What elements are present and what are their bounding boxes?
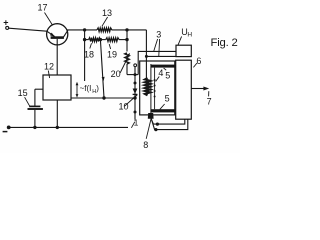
label 5 lower bbox=[160, 94, 170, 110]
label 10 with arrow bbox=[119, 95, 138, 112]
label 13 bbox=[102, 8, 112, 26]
wire from + terminal to transistor bbox=[9, 28, 47, 31]
current annotation arrow bbox=[76, 82, 79, 98]
svg-text:15: 15 bbox=[18, 88, 28, 98]
step wire inner from box6 bottom bbox=[150, 116, 185, 124]
bus node box12 bbox=[56, 126, 59, 129]
svg-text:8: 8 bbox=[143, 140, 148, 150]
svg-text:18: 18 bbox=[84, 50, 94, 60]
svg-text:Fig. 2: Fig. 2 bbox=[211, 37, 238, 49]
bus node capacitor bbox=[33, 126, 36, 129]
svg-text:13: 13 bbox=[102, 8, 112, 18]
label 18 bbox=[84, 43, 94, 59]
wire R19 to zener column bbox=[119, 39, 127, 41]
label 8 with pointer bbox=[143, 119, 151, 150]
core box 1 bbox=[140, 61, 175, 115]
supply box U_H bbox=[176, 45, 191, 56]
output wire 7 with arrow bbox=[192, 87, 210, 91]
node top-left bbox=[83, 28, 86, 31]
box 12 (control unit) bbox=[43, 75, 71, 100]
node at zener column top bbox=[125, 28, 128, 31]
svg-text:H: H bbox=[187, 31, 192, 38]
wire R13 to corner bbox=[112, 29, 147, 31]
node on coil lead bbox=[145, 55, 148, 58]
wire box12 left input bbox=[35, 88, 43, 90]
transistor Q17 bbox=[47, 24, 68, 75]
wire box12 right (I_H line) bbox=[71, 97, 135, 99]
node step outer bbox=[154, 128, 157, 131]
wire zener to diode column bbox=[127, 74, 138, 76]
node diode column lower bbox=[134, 111, 137, 114]
label 6 bbox=[193, 56, 201, 67]
svg-text:10: 10 bbox=[119, 102, 129, 112]
svg-text:6: 6 bbox=[196, 56, 201, 66]
svg-text:): ) bbox=[96, 84, 99, 93]
annotation f(I_H) bbox=[80, 84, 100, 95]
svg-text:5: 5 bbox=[165, 94, 170, 104]
label 5 upper bbox=[164, 68, 171, 81]
resistor R19 bbox=[106, 38, 119, 42]
wire box12 bottom to bus bbox=[56, 100, 58, 127]
node row2 right bbox=[125, 38, 128, 41]
node between R18 R19 bbox=[99, 38, 102, 41]
node on I_H wire bbox=[102, 96, 105, 99]
resistor R13 bbox=[97, 28, 112, 32]
supply wire 3b bbox=[146, 55, 176, 57]
terminal + (positive input) bbox=[3, 18, 9, 30]
svg-text:5: 5 bbox=[165, 71, 170, 81]
svg-text:7: 7 bbox=[207, 96, 212, 106]
label 3 with pointers bbox=[154, 30, 161, 57]
svg-text:17: 17 bbox=[38, 3, 48, 13]
terminal circle mid bbox=[134, 64, 137, 67]
svg-text:12: 12 bbox=[44, 62, 54, 72]
inner vertical line bbox=[150, 64, 152, 115]
junction blob bbox=[148, 113, 154, 119]
node row2 left bbox=[83, 38, 86, 41]
svg-text:20: 20 bbox=[111, 69, 121, 79]
label 12 bbox=[44, 62, 54, 79]
label 4 bbox=[156, 68, 164, 82]
svg-text:19: 19 bbox=[107, 50, 117, 60]
svg-text:3: 3 bbox=[156, 30, 161, 40]
lower conductor bar 5 bbox=[151, 109, 176, 112]
coil L4 bbox=[145, 78, 150, 95]
arrow on divider column bbox=[102, 77, 105, 81]
node step inner bbox=[156, 123, 159, 126]
label 17 bbox=[38, 3, 53, 25]
varistor R20 bbox=[120, 53, 130, 75]
label U_H bbox=[178, 27, 193, 45]
zener column wire bbox=[126, 30, 128, 52]
capacitor C15 bbox=[28, 89, 43, 127]
supply wire 3a bbox=[138, 51, 176, 74]
hall plate edge with contacts bbox=[154, 68, 156, 110]
diode D10 bbox=[133, 89, 138, 95]
label 1 with tick bbox=[131, 117, 138, 127]
label 15 bbox=[18, 88, 30, 106]
wire top right corner down to coil bbox=[145, 30, 147, 78]
upper conductor bar 5 bbox=[151, 65, 176, 68]
terminal - (negative) bbox=[3, 126, 11, 132]
svg-text:~f(I: ~f(I bbox=[80, 84, 92, 93]
node I_H wire right end bbox=[133, 96, 136, 99]
wire divider column down bbox=[100, 40, 104, 98]
step wire outer from box6 bottom bbox=[151, 117, 188, 130]
bottom bus wire bbox=[9, 126, 128, 128]
diode column bbox=[134, 67, 137, 120]
wire row2 left bbox=[85, 39, 89, 41]
wire down from top-left node bbox=[84, 30, 86, 81]
amplifier box 6 bbox=[176, 60, 192, 119]
label 7 bbox=[207, 91, 212, 106]
wire between R18 R19 bbox=[100, 39, 105, 41]
label 19 bbox=[107, 44, 117, 60]
resistor R18 bbox=[89, 38, 101, 42]
top wire bbox=[67, 29, 97, 31]
